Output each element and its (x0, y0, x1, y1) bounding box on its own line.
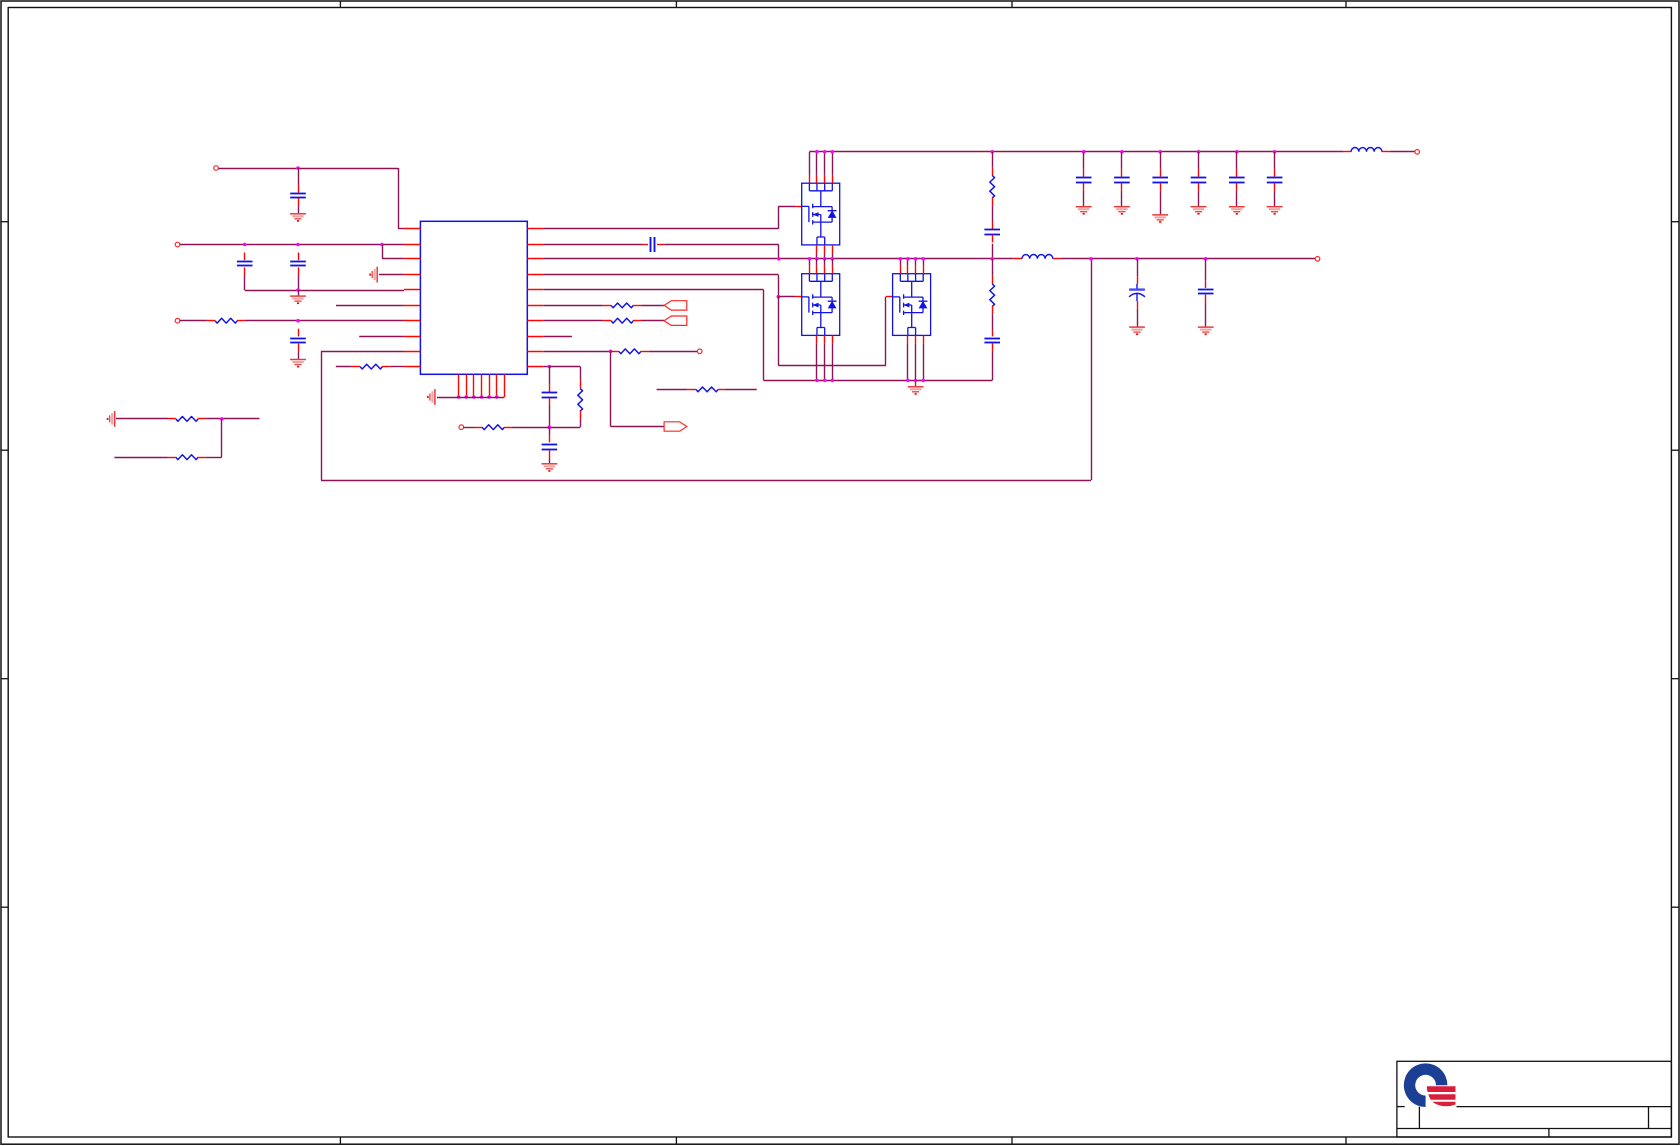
wire into pin 1 (398, 228, 404, 230)
capacitor C10 (1076, 178, 1092, 183)
wire R7 to node (511, 427, 549, 429)
wire C13 top lead (1198, 152, 1200, 169)
IC U1 left pins (404, 228, 421, 230)
wire FB bottom run (321, 480, 1091, 482)
net flag FB2 (664, 316, 687, 325)
wire C10 bottom lead (1083, 191, 1085, 206)
wire LGATE down (778, 275, 780, 297)
terminal VIN filt (1415, 150, 1420, 155)
wire stub pin 8 (359, 336, 404, 338)
wire C14 top lead (1236, 152, 1238, 169)
terminal VCC (175, 242, 180, 247)
power ground PGND (IC bottom) (428, 389, 435, 405)
wire VCC bus (180, 244, 404, 246)
node VIN / C1 (296, 166, 300, 170)
wire gnd to R11 (116, 418, 168, 420)
wire COMP cap lead (549, 367, 551, 385)
node SW / snubbers (990, 257, 994, 261)
wire PGND rail (764, 380, 993, 382)
IC U1 buck controller (420, 221, 527, 374)
wire R6 bottom lead (580, 419, 582, 427)
wire EN to R1 (180, 320, 207, 322)
wire snubber2 top (992, 259, 994, 276)
ground (C13) (1191, 207, 1207, 214)
wire L1 to terminal (1390, 151, 1415, 153)
resistor R5 (619, 349, 641, 354)
wire VREF (544, 351, 611, 353)
ground (C11) (1114, 207, 1130, 214)
power ground (pin 4) (370, 267, 377, 283)
power ground (R11) (108, 411, 115, 427)
wire C6 bottom (549, 406, 551, 428)
wire C15 bottom lead (1274, 191, 1276, 206)
wire COMP to R6 (549, 366, 580, 368)
capacitor C1 (290, 194, 306, 198)
ground (C1) (290, 214, 306, 221)
wire C16 bottom lead (1137, 309, 1139, 327)
ground (Q3 source) (908, 387, 924, 394)
capacitor C11 (1114, 178, 1130, 183)
node analog ground (296, 288, 300, 292)
wire ground sense to pin 5 (298, 290, 404, 292)
wire FB up to VOUT2 (1091, 259, 1093, 480)
wire C11 top lead (1121, 152, 1123, 169)
wire C12 bottom lead (1160, 191, 1162, 215)
node VOUT2 / C17 (1204, 257, 1208, 261)
wire pin 20 (544, 366, 550, 368)
wire C14 bottom lead (1236, 191, 1238, 206)
node VIN / C15 (1273, 150, 1277, 154)
terminal VOUT2 (1315, 257, 1320, 262)
node VREF (609, 350, 613, 354)
resistor R6 (578, 389, 583, 411)
wire PGND pin 5 (544, 289, 764, 291)
ground (C7) (542, 464, 558, 471)
ground (C10) (1076, 207, 1092, 214)
wire R8 left (657, 389, 688, 391)
wire stub R2 (336, 366, 352, 368)
transistor Q3 low-side (893, 274, 931, 336)
resistor R4 (611, 318, 633, 323)
node LGATE gates (777, 295, 781, 299)
wire R5 to terminal (649, 351, 698, 353)
ground (C12) (1152, 215, 1168, 222)
wire AGND pin 4 (379, 274, 404, 276)
node COMP RC (548, 425, 552, 429)
net flag TON (664, 301, 687, 310)
wire C1 top lead (298, 168, 300, 185)
wire C1 to ground (298, 206, 300, 213)
wire stub pin 6 (336, 305, 404, 307)
ground (C4) (290, 360, 306, 367)
wire R9 to C8 (992, 206, 994, 222)
resistor R10 snubber (990, 284, 995, 306)
wire branch down to pin 3 (382, 245, 384, 259)
wire FB vertical (321, 351, 323, 480)
node VIN / snubber (990, 150, 994, 154)
wire VIN rail (809, 151, 1343, 153)
net flag VREF (664, 422, 687, 431)
node VIN / C11 (1120, 150, 1124, 154)
ground (C14) (1229, 207, 1245, 214)
capacitor C3 (290, 262, 306, 266)
resistor R11 (176, 417, 198, 422)
transistor Q2 low-side (802, 274, 840, 336)
wire C16 top lead (1137, 259, 1139, 276)
wire resistor R4 to flag (641, 320, 664, 322)
wire PGND down (763, 290, 765, 381)
terminal VREF out (697, 349, 702, 354)
wire into pin 3 (382, 258, 404, 260)
resistor R9 snubber (990, 176, 995, 198)
ground (C17) (1198, 327, 1214, 334)
resistor R12 (176, 455, 198, 460)
wire R12 to node (206, 457, 222, 459)
ground (C15) (1267, 207, 1283, 214)
wire R11 node (206, 418, 259, 420)
wire FB to pin 9 (321, 351, 404, 353)
resistor R2 (360, 364, 382, 369)
wire VIN to C1 (218, 168, 398, 170)
wire R2 to pin 10 (390, 366, 404, 368)
wire C12 top lead (1160, 152, 1162, 169)
inductor L2 (1022, 254, 1053, 258)
wire C2 to C3 ground node (245, 290, 298, 292)
wire snubber1 top (992, 152, 994, 168)
wire VOUT2 (1061, 258, 1316, 260)
node R11 / R12 (220, 417, 224, 421)
ground (C2 C3) (290, 296, 306, 303)
capacitor C7 (542, 445, 558, 450)
wire UGATE up (778, 206, 780, 229)
terminal VIN (214, 166, 219, 171)
node VIN / C13 (1197, 150, 1201, 154)
wire BST to C5 (544, 244, 643, 246)
Q2 drain pins (809, 259, 811, 266)
wire R10 to C9 (992, 314, 994, 330)
wire C17 bottom lead (1205, 302, 1207, 326)
Q2 source pins (816, 335, 818, 343)
node VIN / C14 (1235, 150, 1239, 154)
Q3 drain pins (900, 259, 902, 266)
title block (1397, 1061, 1672, 1137)
ground (C16) (1129, 327, 1145, 334)
capacitor C2 (237, 262, 253, 266)
node VCC / C3 (296, 243, 300, 247)
wire C7 top lead (549, 427, 551, 435)
wire R1 to pin 7 (245, 320, 404, 322)
inductor L1 (1351, 147, 1382, 151)
capacitor C15 (1267, 178, 1283, 183)
wire C3 bottom lead (298, 275, 300, 290)
wire SS to R7 (464, 427, 474, 429)
wire LGATE link up (885, 297, 887, 366)
wire C13 bottom lead (1198, 191, 1200, 206)
wire LGATE link across (778, 365, 886, 367)
wire C15 top lead (1274, 152, 1276, 169)
transistor Q1 high-side (802, 183, 840, 245)
wire to flag (611, 426, 665, 428)
wire C4 to ground (298, 351, 300, 359)
node VCC branch (380, 243, 384, 247)
company logo (1404, 1063, 1456, 1107)
capacitor C14 (1229, 178, 1245, 183)
wire to Q2 gate (778, 296, 795, 298)
wire stub pin 18 (544, 336, 572, 338)
wire C9 to PGND rail (992, 351, 994, 381)
wire VREF branch down (610, 351, 612, 426)
node VIN / C12 (1158, 150, 1162, 154)
wire to resistor R4 (544, 320, 603, 322)
wire C8 to SW (992, 244, 994, 259)
wire C2 bottom lead (244, 275, 246, 290)
resistor R8 (696, 387, 718, 392)
capacitor C13 (1191, 178, 1207, 183)
node COMP (548, 365, 552, 369)
wire to resistor R3 (544, 305, 603, 307)
resistor R7 (482, 425, 504, 430)
node EN / C4 (296, 319, 300, 323)
wire divider vertical (221, 419, 223, 457)
capacitor C12 (1152, 178, 1168, 183)
Q3 source pins (907, 335, 909, 343)
wire R6 to node (549, 427, 580, 429)
capacitor C8 snubber (984, 230, 1000, 235)
wire UGATE (544, 228, 779, 230)
Q1 source pins (816, 245, 818, 253)
wire C10 top lead (1083, 152, 1085, 169)
resistor R3 (611, 303, 633, 308)
wire C17 top lead (1205, 259, 1207, 281)
node VOUT2 / FB (1089, 257, 1093, 261)
node VIN / C10 (1082, 150, 1086, 154)
capacitor C4 (290, 339, 306, 343)
wire BST down to SW (778, 245, 780, 259)
wire LGATE link down (778, 297, 780, 366)
wire C5 to SW (664, 244, 779, 246)
capacitor C9 snubber (984, 339, 1000, 343)
wire R6 top lead (580, 367, 582, 381)
node VCC / C2 (243, 243, 247, 247)
capacitor C16 polarized (1129, 284, 1145, 302)
capacitor C6 (542, 393, 558, 398)
wire VIN down to pin 1 (398, 168, 400, 229)
wire LGATE (544, 274, 779, 276)
terminal SS (459, 425, 464, 430)
IC U1 right pins (527, 228, 544, 230)
wire to Q1 gate (778, 206, 795, 208)
wire IC ground bus (437, 397, 504, 399)
wire resistor R3 to flag (641, 305, 664, 307)
terminal EN (175, 318, 180, 323)
resistor R1 (215, 318, 237, 323)
capacitor C5 bootstrap (651, 237, 655, 252)
node VOUT2 / C16 (1135, 257, 1139, 261)
IC U1 bottom pins (458, 374, 460, 397)
wire C11 bottom lead (1121, 191, 1123, 206)
Q1 drain pins (809, 152, 811, 175)
wire R12 left (114, 457, 167, 459)
wire SW bus (544, 258, 1013, 260)
wire C7 to ground (549, 457, 551, 463)
node SW / BST (777, 257, 781, 261)
wire R8 right (725, 389, 757, 391)
capacitor C17 (1198, 290, 1214, 294)
wire to ground symbol (298, 290, 300, 296)
